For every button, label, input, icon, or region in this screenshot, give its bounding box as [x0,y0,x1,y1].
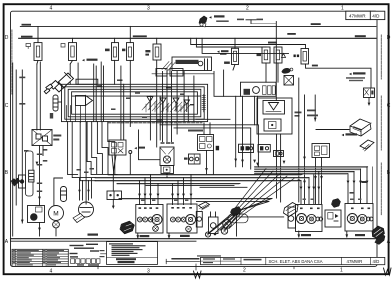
wire vertical through ECU c [100,62,102,122]
svg-text:D: D [5,35,9,41]
sensor pin boxes [156,69,167,77]
label arrow 41500 [342,134,345,136]
sensor strip component B1 [172,57,212,71]
node junction T with tick [246,19,256,21]
notes text streaks [109,243,146,263]
lamp connector box with X circle [160,147,174,166]
small circle spoke [205,232,210,237]
solenoid valve V4 [184,100,190,112]
svg-text:2: 2 [246,6,249,12]
small box right mid c [274,151,284,157]
ECU pin comb right [202,95,206,113]
ECU internal bus [72,95,200,97]
wires below K10 [315,158,317,172]
ECU inner triangle left [86,96,93,106]
wire elbow feed K9 [191,38,306,48]
wire vertical i [193,76,195,122]
wire vertical h [183,72,185,122]
knot to iso connector right [239,216,284,218]
bus mid long 1 [108,174,302,176]
separator line above legend [11,238,378,240]
wire vertical long f [123,84,125,140]
wire K1 down to X box [36,64,38,130]
wire with arrow x315 [314,95,316,121]
relay box small mid cluster [109,140,126,155]
relay K1 [34,26,42,64]
iso connector hatched mid right [284,203,299,217]
cluster 1 down arrow and label [137,233,139,238]
relay K1 symbol label [26,44,31,49]
pump B labels right [295,112,302,114]
label arrow left of ECU wires [82,59,85,61]
horn box with dot [28,206,45,223]
svg-text:3: 3 [147,269,150,275]
labels near cluster4 drops [362,181,368,183]
wire label on bus2 right1 [287,33,296,35]
connector X1 label [53,135,61,137]
wire vertical ECU right b [159,96,161,140]
bottom ticks on frame [97,266,99,268]
wire from sensor area to A [214,72,241,97]
wire pin a down [162,72,164,142]
wire left stub with ticks [19,70,25,223]
wire vertical through ECU b [95,66,97,122]
quad 2 [255,168,361,170]
wire through two cell box [112,175,114,207]
lamp cluster box 4 [345,204,373,232]
connector box with X top right [284,76,294,86]
wires below pump B [280,134,282,202]
arrows on A wires [241,160,259,166]
label ticks left low wires [24,150,29,152]
cluster 4 drop 5 [372,167,374,204]
cluster 4 drop 1 [366,167,368,204]
wire below horn box [39,223,41,237]
motor M1 [49,206,64,236]
dark square right of U2 [216,146,219,151]
wire vertical ECU right a [149,96,151,140]
cluster 2 down arrow and label [168,233,170,238]
pump box B right [257,98,292,134]
wire ECU drop 7 [102,122,108,175]
diode triangle symbol [282,54,286,58]
bus low 1 [119,197,272,199]
flasher box with circle [209,212,219,234]
wire under ECU to right 2 [174,128,251,169]
relay K3 [112,38,119,84]
bus mid 6 [200,186,247,188]
small circle b [221,228,227,234]
wire pin c down [171,72,173,142]
cluster pin dashes [139,207,371,209]
wire under ECU to right 3 [196,118,230,120]
wire right of pin boxes [152,73,214,75]
wire label on bus2 mid [133,35,147,37]
svg-text:47MWR: 47MWR [347,259,363,264]
svg-text:1: 1 [340,268,343,274]
wire X1 down [39,146,41,206]
wire vertical through ECU a [93,64,95,122]
fold mark W right [384,268,392,275]
cluster 3 drop 3 [313,175,315,204]
label squares right of triangle [294,55,296,58]
rounded grommet outline [228,214,248,223]
wire elbow feed K7 [196,38,266,47]
relay K6 [232,38,239,70]
wire ECU drop 3 [80,122,95,181]
ECU top bump box [76,79,98,84]
ECU inner verticals [67,106,86,122]
svg-text:2: 2 [243,268,246,274]
solenoid valve V1 [147,97,153,110]
wire below K9 to right [306,64,372,88]
wire X1 down b [42,146,44,156]
valve hatch strokes [142,99,190,112]
mid box between cluster 3 and 4 [325,210,341,227]
relay K8 [274,47,282,82]
cable loop outline left low [26,151,34,196]
relay K6 label [217,51,220,53]
svg-text:4/D: 4/D [372,14,380,19]
label ABS bottom left [88,234,99,236]
small 2cell box with circles [189,154,201,164]
connector 3d dark small [120,221,135,234]
svg-text:SCH. ELET. ABS DANA CSA: SCH. ELET. ABS DANA CSA [269,259,323,264]
wire label on bus1 right [311,23,321,25]
cluster 3 arrows [300,187,321,190]
cluster 4 arrows [347,181,369,184]
svg-text:4/D: 4/D [373,259,380,264]
narrow box left of flasher [196,212,202,228]
quad 3 [255,170,355,172]
wire vertical K5 down to lamp box [156,72,158,148]
fan from bus into knot [234,169,266,210]
connector 3d between clusters [199,202,210,210]
stubs into U2 [203,123,205,135]
ECU inner sub box [76,96,86,106]
bus mid long 3 [95,180,301,182]
junction arrow mid [134,147,137,149]
label under ECU [188,130,203,132]
dark iso connector bottom right [372,226,385,245]
wire far-left second [15,70,17,205]
bracket dimension line [166,259,199,264]
labels near x315 [307,110,316,112]
wire below U2 [206,151,208,174]
wire ECU drop 2 [72,122,95,178]
separator line 2 [11,240,197,242]
title box top right [346,11,385,19]
ECU nested box 4 [72,92,198,114]
wire bundle to sensor [77,168,95,200]
label text under W18 [216,20,229,22]
two cell box left low [107,191,122,200]
relay K3 label [105,49,110,52]
stub below junction box [368,98,370,105]
pin tick labels cluster 1 [141,200,144,202]
drops to lamp cluster 1 [139,181,141,205]
legend notes right of table [70,244,100,255]
sensor box with dot left low [19,175,26,188]
lamp cluster box 3 [296,205,323,232]
lamp cluster box 2 [167,204,197,233]
relay box right K10 [312,144,330,158]
wire label INPUT 30 bus2 right [355,35,366,37]
svg-text:M: M [53,211,58,218]
fuse pill component left low [29,170,34,182]
connector 3d iso X40 [350,119,371,136]
wire ECU drop 4 [87,122,117,175]
relay K2 symbol label [61,44,65,48]
wire vertical K4 down [129,61,131,127]
cluster 3 drop 4 [318,171,320,203]
bus mid 5 [146,184,234,186]
bundle knot to connectors [210,212,237,233]
wire to ECU second [77,63,79,84]
title strip bottom [201,257,385,264]
small box pair right mid a [239,144,254,152]
wire K2 down to ECU [69,64,71,84]
connector 3d iso small lower [360,140,374,151]
connector X1 box with X [32,130,52,146]
dark blob above mid box [332,199,341,208]
svg-text:4: 4 [50,269,53,275]
label arrow right end [349,73,352,75]
cluster 3 drop 1 [300,181,302,204]
solenoid valve V3 [173,98,179,111]
strip of small boxes [71,259,101,264]
relay K9 [301,49,309,65]
label left of K7 [257,54,262,57]
long vertical wire right x299 [298,78,300,202]
wire vertical to pump box B [275,22,277,101]
label arrow W18 [209,16,212,18]
svg-text:3: 3 [147,6,150,12]
title strip texts [203,258,379,264]
cluster 4 drop 2 [360,169,362,203]
margin vertical text left [11,30,13,94]
small dot [214,233,217,236]
box with dot below [161,166,174,174]
margin vertical text right upper [380,35,382,215]
wire into X box from left [139,130,161,160]
wire elbow to diode [202,38,288,53]
fuse F1 label [50,113,53,119]
lamp circle with X mid [223,220,232,229]
relay K4 label [122,49,125,52]
ECU internal tick line [108,122,202,124]
wire ECU drop 11 elbow [80,121,82,123]
ECU ABS modulator U1 nested box 1 [62,84,208,121]
wires from A down [254,96,256,125]
cluster 4 drop 4 [347,174,349,204]
wire label on bus1 left [22,24,32,26]
solenoid valve V2 [160,98,166,111]
wire vertical long e [120,66,122,140]
connector dark plug left low [11,178,20,186]
svg-text:C: C [387,103,391,109]
fuse F1 vertical pill [53,95,62,111]
wire label on bus2 left [21,36,33,38]
bus mid 4 [117,182,240,184]
bus gray shadows [95,168,367,200]
relay K5 [153,38,161,71]
svg-text:1: 1 [341,6,344,12]
table text streaks [13,250,64,266]
sensor circle with connector [79,202,94,217]
wire ECU drop 1 staircase [68,122,78,175]
lamp cluster box 1 [136,205,163,234]
wires V from relay box down [112,155,116,171]
wire pin b down [166,72,168,142]
small box pair right mid b [258,145,270,153]
ECU nested box 2 [65,87,204,119]
junction box right small [364,88,375,98]
label on K9 feed wire [268,42,277,44]
pin labels above lamp connector [161,142,165,144]
ECU nested box 3 [68,89,201,117]
wire ECU drop 5 [92,122,97,174]
tiny text above strip left [197,255,221,256]
relay K4 [127,26,134,60]
wire ECU drop 10 [85,122,87,204]
legend table bottom left [12,249,68,266]
svg-text:47MWR: 47MWR [349,14,366,19]
arrow left of notes box [101,250,107,254]
svg-text:C: C [5,103,9,109]
cluster2 small circle low [186,226,192,232]
connector X30 3d symbol top [199,16,207,27]
relay K5 label [145,50,150,52]
hatched connector at sensor [73,214,85,223]
wire ECU drop 6 [97,122,102,174]
long vertical wire right x304 [304,95,306,204]
wire far-left long [12,63,14,236]
tiny label specks dense band [97,80,194,121]
wire ECU drop 8 [108,122,115,175]
wire ECU drop 9 to M [54,178,63,206]
bus wire 30 top [20,25,376,27]
knot junction dot [235,210,238,213]
wire vertical through ECU d [103,66,105,122]
connector plug 3d pencil [44,73,73,94]
wire label bump on K9 wire [312,65,318,67]
cluster 4 drop 3 [353,171,355,203]
cluster 4 arrow below [346,231,348,237]
bus wire 15 second [19,37,376,39]
horizontal bus quad right y167 [255,166,368,168]
wire parallel to X box [39,62,41,130]
fold mark W left [194,271,202,278]
svg-text:D: D [387,35,391,41]
wire horizontal to iso connector [316,129,349,131]
relay K7 [262,47,270,82]
relay K2 [69,38,77,64]
notes box mid bottom [107,242,158,265]
bus low 2 [197,200,269,202]
bus mid long 2 [95,177,309,179]
cluster1 small circle low [153,226,159,232]
cluster 3 arrow label below [298,231,300,237]
control box U2 [198,135,214,151]
node small circle junction [129,151,132,154]
wire from box down to bus [166,174,168,178]
small box with circle left of cluster3 [288,207,296,228]
quad 4 [255,173,348,175]
wire vertical g [176,72,178,135]
svg-text:4: 4 [50,6,53,12]
wire vertical ECU right c [187,96,189,122]
brush pill above sensor [61,187,67,202]
wire under ECU to right 1 [160,125,258,167]
vertical mid x235 [235,96,237,167]
junction box A right top [241,82,277,96]
dark leaf connector [282,68,291,74]
drops to lamp cluster 2 [172,183,174,204]
cluster 3 drop 2 [308,178,310,204]
dark connector blob [231,207,242,217]
hatch left of sensor [162,62,175,71]
